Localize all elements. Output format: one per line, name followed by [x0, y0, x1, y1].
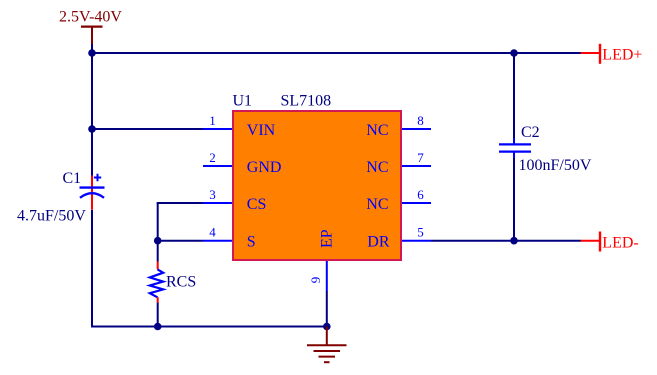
junction ground node: [323, 323, 331, 331]
junction RCS bottom: [154, 323, 162, 331]
svg-text:CS: CS: [247, 196, 267, 213]
svg-text:LED-: LED-: [602, 235, 638, 252]
pin 2 GND stub: [203, 165, 232, 167]
svg-text:1: 1: [209, 113, 216, 128]
junction VIN tap: [88, 125, 96, 133]
junction C2 bottom: [510, 237, 518, 245]
pin 8 NC stub: [402, 128, 431, 130]
connector LED+: [581, 44, 600, 64]
wire CS branch vertical: [157, 203, 159, 241]
wire DR to LED-: [431, 240, 581, 242]
svg-text:3: 3: [209, 187, 216, 202]
ground: [307, 327, 347, 363]
wire power stem to top rail: [91, 44, 93, 53]
svg-text:U1: U1: [233, 93, 253, 110]
pin 5 DR stub: [402, 240, 431, 242]
svg-text:4.7uF/50V: 4.7uF/50V: [17, 208, 86, 225]
resistor RCS: [150, 262, 163, 303]
svg-text:2: 2: [209, 150, 216, 165]
capacitor C2: [499, 138, 531, 158]
op IC U1 body: [233, 111, 401, 260]
wire VIN branch: [92, 128, 203, 130]
wire top rail: [92, 52, 581, 54]
svg-text:EP: EP: [319, 229, 336, 248]
pin 3 CS stub: [203, 202, 232, 204]
wire C2 branch lower: [513, 158, 515, 241]
power bar symbol: [81, 27, 103, 44]
wire left rail lower: [91, 210, 93, 328]
svg-text:NC: NC: [366, 196, 388, 213]
wire left rail upper: [91, 53, 93, 176]
svg-text:GND: GND: [247, 159, 282, 176]
wire CS branch horizontal: [157, 202, 203, 204]
svg-text:9: 9: [308, 277, 323, 284]
svg-text:5: 5: [417, 225, 424, 240]
pin 9 EP stub: [326, 261, 328, 291]
svg-text:6: 6: [417, 187, 424, 202]
svg-text:LED+: LED+: [602, 47, 642, 64]
svg-text:2.5V-40V: 2.5V-40V: [59, 9, 122, 26]
svg-text:VIN: VIN: [247, 122, 276, 139]
svg-text:8: 8: [417, 113, 424, 128]
pin 1 VIN stub: [203, 128, 232, 130]
svg-text:SL7108: SL7108: [281, 93, 332, 110]
junction S node: [154, 237, 162, 245]
wire RCS top: [157, 241, 159, 262]
svg-text:C2: C2: [521, 124, 540, 141]
wire C2 branch upper: [513, 53, 515, 138]
wire S branch: [158, 240, 203, 242]
pin 4 S stub: [203, 240, 232, 242]
svg-text:C1: C1: [63, 170, 82, 187]
svg-text:7: 7: [417, 150, 424, 165]
svg-text:NC: NC: [366, 122, 388, 139]
wire RCS bottom: [157, 303, 159, 327]
wire EP to ground: [326, 291, 328, 327]
pin 7 NC stub: [402, 165, 431, 167]
svg-text:NC: NC: [366, 159, 388, 176]
junction top-left: [88, 49, 96, 57]
wire bottom rail: [91, 326, 327, 328]
svg-text:RCS: RCS: [166, 273, 196, 290]
svg-text:4: 4: [209, 225, 216, 240]
capacitor C1: [80, 174, 105, 210]
svg-text:100nF/50V: 100nF/50V: [519, 157, 592, 174]
junction C2 top: [510, 49, 518, 57]
svg-text:S: S: [247, 234, 256, 251]
svg-text:DR: DR: [367, 234, 390, 251]
pin 6 NC stub: [402, 202, 431, 204]
connector LED-: [581, 232, 600, 252]
